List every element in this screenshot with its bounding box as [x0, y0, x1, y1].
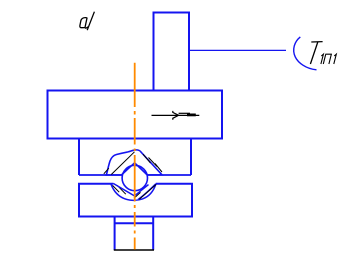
shaft (top vertical rectangle) — [154, 13, 190, 91]
upper bar (clamp jaw) — [79, 140, 191, 176]
hatching lower-left (\) — [113, 185, 126, 194]
upper bar bottom edge (continuous) — [79, 174, 191, 176]
torque label subscript 1П1 — [321, 54, 336, 64]
hatching lower-right (/) — [134, 184, 156, 199]
large rectangle (carriage) — [48, 91, 223, 139]
wedge mound (upper shoe, section) — [106, 150, 162, 175]
hatching upper-left (/) — [104, 152, 135, 175]
stem bottom edge (black) — [114, 249, 154, 251]
lower bar (clamp jaw) — [79, 184, 192, 217]
lower shoe crescent outer arc — [111, 184, 156, 200]
lower shoe right dividing line — [138, 184, 156, 200]
hatching upper-right (\) — [143, 154, 162, 172]
direction arrow inside carriage — [152, 111, 200, 120]
ball seat V (lower, long legs) — [113, 183, 148, 196]
ball — [122, 165, 147, 190]
centerline (orange dash-dot) — [134, 63, 136, 250]
torque label T — [310, 42, 322, 64]
ball seat V (upper, drawn over ball) — [121, 163, 147, 175]
label a) — [80, 12, 95, 31]
stem (lower shaft) — [115, 217, 154, 251]
torque lead line — [190, 49, 286, 51]
torque arc — [294, 37, 317, 70]
